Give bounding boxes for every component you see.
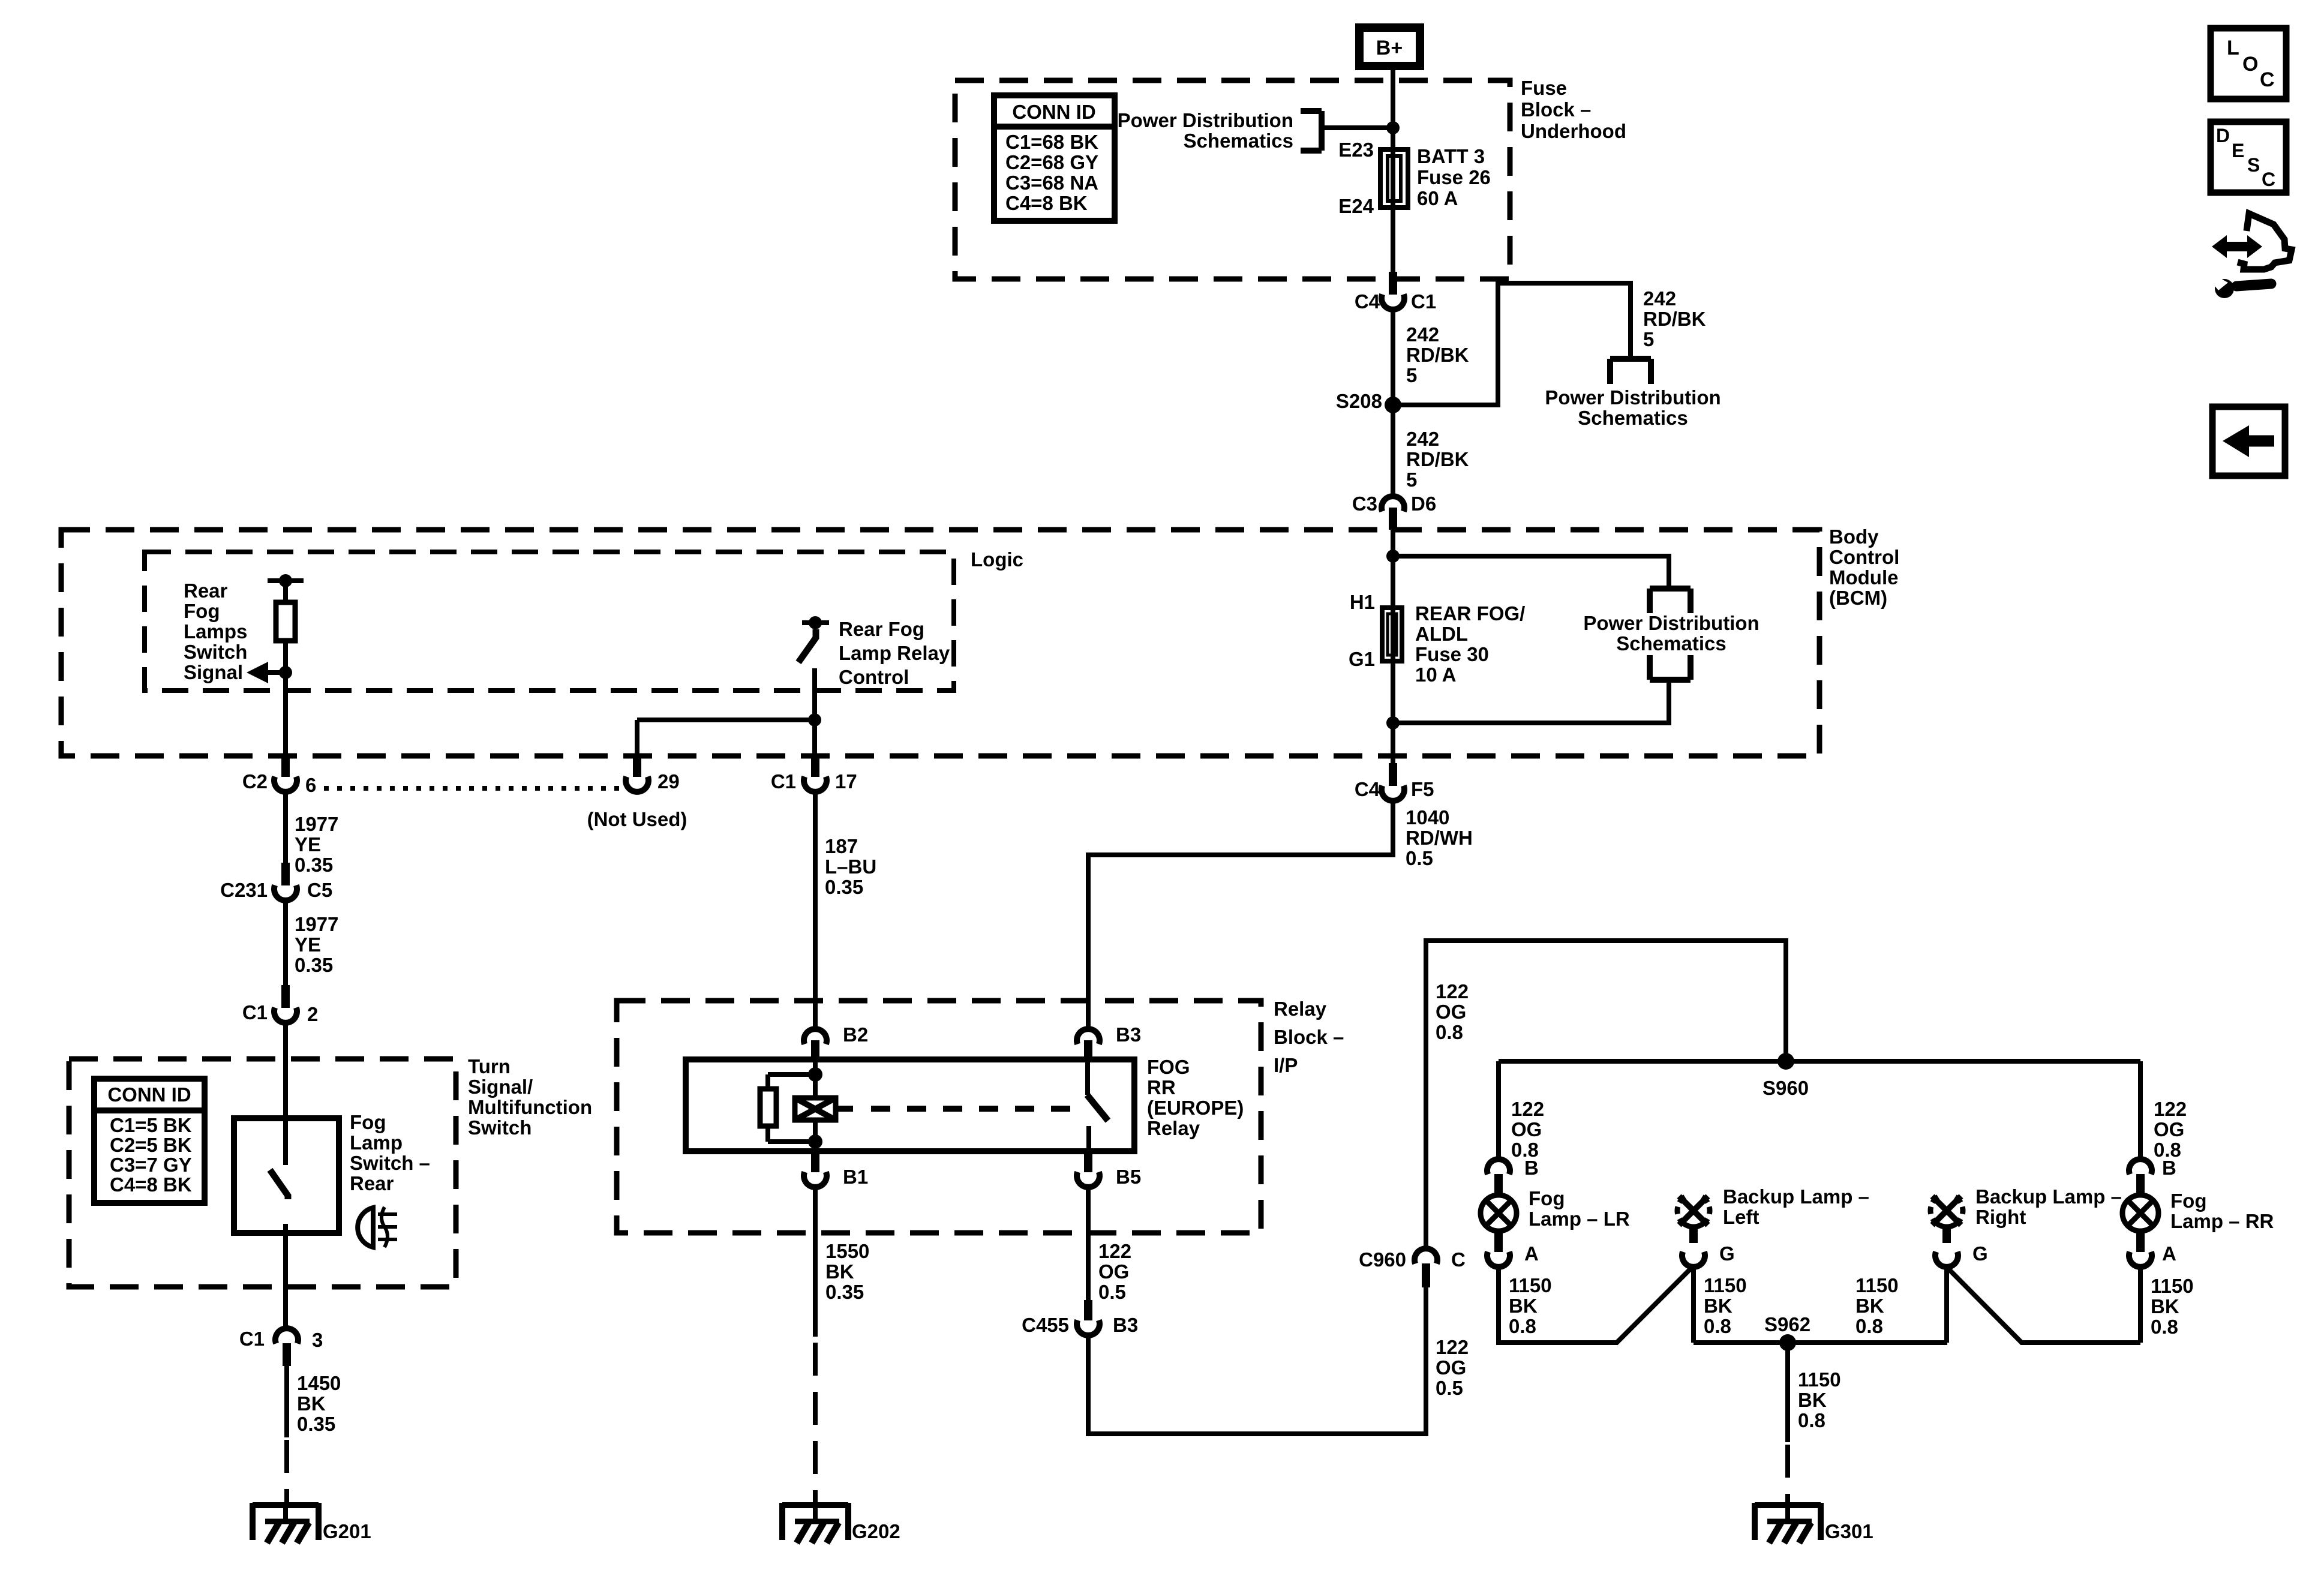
svg-text:RD/BK: RD/BK — [1406, 448, 1469, 470]
wire BCM trunk — [1391, 530, 1395, 767]
svg-text:C2=68 GY: C2=68 GY — [1005, 151, 1098, 173]
svg-text:1150: 1150 — [1798, 1368, 1841, 1391]
svg-text:S: S — [2247, 154, 2260, 176]
rear fog lamps switch signal tap — [268, 574, 304, 587]
connector C1 pin 17 — [804, 754, 827, 792]
svg-text:C455: C455 — [1022, 1314, 1069, 1336]
svg-text:REAR FOG/: REAR FOG/ — [1415, 602, 1525, 625]
svg-text:Underhood: Underhood — [1521, 120, 1626, 142]
wire label 1550 BK 0.35 — [825, 1240, 869, 1303]
svg-text:C1: C1 — [1411, 290, 1436, 313]
wire S960 to fog RR — [2138, 1061, 2143, 1159]
label Rear Fog Lamp Relay Control — [839, 618, 950, 688]
svg-text:122: 122 — [1436, 980, 1469, 1002]
wire label 242 RD/BK 5 (lower) — [1406, 428, 1469, 491]
svg-text:B: B — [1524, 1157, 1539, 1179]
fuse block - underhood dashed box — [955, 80, 1510, 279]
ground G301 — [1755, 1503, 1873, 1543]
svg-text:I/P: I/P — [1274, 1054, 1298, 1076]
svg-text:Schematics: Schematics — [1184, 130, 1293, 152]
wire label 1150 BK 0.8 (backup right) — [1855, 1274, 1899, 1337]
wire connector to S208 — [1391, 310, 1395, 405]
label Backup Lamp - Right — [1975, 1185, 2122, 1228]
svg-text:C4: C4 — [1355, 778, 1380, 800]
svg-text:187: 187 — [825, 835, 858, 857]
svg-text:Fuse 30: Fuse 30 — [1415, 643, 1489, 665]
svg-text:17: 17 — [835, 770, 857, 792]
dashed wire to G201 — [284, 1440, 289, 1503]
wire label 122 OG 0.8 (fog RR) — [2154, 1098, 2187, 1161]
svg-text:C: C — [2262, 169, 2275, 190]
wire fog LR to backup left — [1499, 1266, 1694, 1343]
svg-text:Lamps: Lamps — [184, 620, 247, 643]
connector C2 pin 6 — [274, 754, 297, 792]
wire label 1150 BK 0.8 (backup left) — [1704, 1274, 1747, 1337]
svg-text:G201: G201 — [323, 1520, 371, 1542]
svg-text:Fog: Fog — [1529, 1187, 1565, 1209]
svg-text:0.35: 0.35 — [825, 1281, 864, 1303]
svg-text:Control: Control — [839, 666, 909, 688]
connector B2 — [804, 1029, 827, 1061]
svg-text:ALDL: ALDL — [1415, 623, 1468, 645]
wire B+ down to fuse — [1391, 66, 1395, 278]
svg-text:0.8: 0.8 — [1509, 1315, 1536, 1337]
svg-text:G202: G202 — [852, 1520, 900, 1542]
wire label 1150 BK 0.8 (fog RR) — [2151, 1275, 2194, 1338]
svg-text:122: 122 — [1436, 1336, 1469, 1358]
svg-text:G: G — [1972, 1242, 1988, 1265]
svg-text:0.35: 0.35 — [295, 954, 333, 976]
svg-text:S208: S208 — [1336, 390, 1382, 412]
svg-text:C2: C2 — [242, 770, 268, 792]
wire C4/F5 to relay B3 — [1088, 803, 1393, 1028]
svg-text:242: 242 — [1406, 323, 1439, 346]
wire pin29 drop — [635, 720, 639, 760]
connector C455/B3 — [1077, 1300, 1100, 1335]
svg-text:BK: BK — [2151, 1295, 2179, 1317]
svg-text:0.35: 0.35 — [297, 1413, 335, 1435]
wire label 1150 BK 0.8 (fog LR) — [1509, 1274, 1552, 1337]
wire label 187 L-BU 0.35 — [825, 835, 876, 898]
svg-text:YE: YE — [295, 933, 321, 956]
arrow rear fog lamps switch signal — [247, 662, 286, 683]
svg-text:2: 2 — [307, 1003, 318, 1025]
svg-text:Lamp – RR: Lamp – RR — [2170, 1210, 2274, 1232]
svg-text:1977: 1977 — [295, 913, 338, 935]
wire label 1150 BK 0.8 (S962) — [1798, 1368, 1841, 1431]
svg-text:C5: C5 — [307, 879, 332, 901]
svg-text:C3: C3 — [1352, 493, 1377, 515]
svg-text:B: B — [2162, 1157, 2176, 1179]
svg-text:Signal: Signal — [184, 661, 243, 683]
svg-text:B2: B2 — [843, 1023, 868, 1046]
svg-text:Power Distribution: Power Distribution — [1545, 386, 1721, 409]
label Body Control Module (BCM) — [1829, 526, 1899, 609]
svg-text:Backup Lamp –: Backup Lamp – — [1975, 1185, 2122, 1208]
svg-text:B5: B5 — [1116, 1166, 1141, 1188]
fog lamp switch box — [234, 1118, 339, 1233]
svg-text:Power Distribution: Power Distribution — [1583, 612, 1759, 634]
svg-text:Block –: Block – — [1274, 1026, 1344, 1048]
relay coil — [795, 1098, 836, 1120]
wire BCM C4/F5 drop — [1391, 767, 1395, 769]
wire B1 to ground — [813, 1187, 818, 1337]
svg-text:Lamp – LR: Lamp – LR — [1529, 1208, 1630, 1230]
svg-text:(EUROPE): (EUROPE) — [1147, 1097, 1244, 1119]
svg-text:Relay: Relay — [1274, 998, 1327, 1020]
svg-text:C: C — [1451, 1248, 1466, 1271]
svg-text:B1: B1 — [843, 1166, 868, 1188]
svg-text:1150: 1150 — [1855, 1274, 1899, 1296]
svg-text:H1: H1 — [1350, 591, 1375, 613]
svg-text:0.35: 0.35 — [295, 854, 333, 876]
svg-text:29: 29 — [657, 770, 680, 792]
svg-text:BK: BK — [1798, 1389, 1827, 1411]
label Power Distribution Schematics (branch) — [1545, 386, 1721, 429]
svg-text:C2=5 BK: C2=5 BK — [110, 1134, 192, 1156]
splice S960 — [1777, 1053, 1794, 1070]
svg-text:YE: YE — [295, 833, 321, 855]
label Fog Lamp - RR — [2170, 1190, 2274, 1232]
label Backup Lamp - Left — [1723, 1185, 1869, 1228]
body control module dashed box — [61, 530, 1819, 756]
svg-text:Signal/: Signal/ — [468, 1076, 533, 1098]
svg-text:1150: 1150 — [1704, 1274, 1747, 1296]
wire label 1450 BK 0.35 — [297, 1372, 341, 1435]
svg-text:Module: Module — [1829, 566, 1898, 589]
svg-text:10 A: 10 A — [1415, 664, 1456, 686]
lamp Fog Lamp - RR — [2122, 1195, 2158, 1252]
svg-text:C: C — [2260, 68, 2275, 91]
junction node on B+ feed — [1386, 121, 1400, 134]
svg-text:122: 122 — [2154, 1098, 2187, 1120]
svg-text:Schematics: Schematics — [1616, 632, 1726, 655]
ground G201 — [253, 1503, 371, 1543]
svg-text:Rear: Rear — [350, 1172, 394, 1194]
LOC icon box — [2211, 28, 2286, 99]
wire switch to C1/3 — [283, 1233, 288, 1328]
wire C1/2 into switch — [283, 1024, 288, 1165]
svg-text:L–BU: L–BU — [825, 855, 876, 878]
DESC icon box — [2211, 122, 2286, 193]
junction node with arrow — [279, 666, 292, 679]
wire B5 to C455 — [1086, 1187, 1091, 1302]
svg-text:0.8: 0.8 — [1436, 1021, 1463, 1043]
svg-text:Rear Fog: Rear Fog — [839, 618, 924, 640]
wire label 122 OG 0.8 (riser) — [1436, 980, 1469, 1043]
svg-text:Control: Control — [1829, 546, 1899, 568]
wire label 242 RD/BK 5 — [1406, 323, 1469, 386]
svg-text:0.8: 0.8 — [1704, 1315, 1731, 1337]
svg-text:(BCM): (BCM) — [1829, 587, 1887, 609]
logic dashed box — [145, 552, 954, 691]
svg-text:S960: S960 — [1762, 1077, 1809, 1099]
lamp Backup Lamp - Left — [1677, 1196, 1710, 1243]
svg-text:A: A — [2162, 1242, 2176, 1265]
svg-text:0.5: 0.5 — [1436, 1377, 1463, 1399]
svg-text:F5: F5 — [1411, 778, 1434, 800]
connector C4/C1 — [1382, 272, 1404, 310]
svg-text:S962: S962 — [1764, 1313, 1810, 1335]
svg-text:Right: Right — [1975, 1206, 2026, 1228]
svg-text:C1: C1 — [771, 770, 796, 792]
wire label 122 OG 0.5 (B5) — [1098, 1240, 1131, 1303]
relay coil lower node — [813, 1120, 818, 1151]
junction node BCM top — [1386, 550, 1400, 563]
svg-text:RD/WH: RD/WH — [1406, 827, 1473, 849]
connector C4/F5 — [1382, 763, 1404, 801]
relay switch — [1087, 1059, 1108, 1151]
svg-text:0.35: 0.35 — [825, 876, 863, 898]
connector pin 29 (not used) — [626, 754, 648, 792]
label FOG RR (EUROPE) Relay — [1147, 1056, 1244, 1139]
svg-text:OG: OG — [2154, 1118, 2184, 1140]
wire S962 to ground — [1785, 1343, 1790, 1442]
label BATT 3 Fuse 26 60 A — [1417, 145, 1491, 209]
wire C1/3 to ground — [284, 1364, 289, 1437]
svg-text:OG: OG — [1511, 1118, 1542, 1140]
svg-text:Lamp Relay: Lamp Relay — [839, 642, 950, 664]
fuse REAR FOG/ALDL Fuse 30 10A — [1382, 608, 1402, 661]
fog lamp switch blade — [270, 1170, 288, 1233]
svg-text:Power Distribution: Power Distribution — [1118, 109, 1293, 131]
wire C1/17 to relay B2 — [813, 793, 818, 1028]
svg-text:Block –: Block – — [1521, 98, 1591, 121]
wire label 1040 RD/WH 0.5 — [1406, 806, 1473, 869]
svg-text:Lamp: Lamp — [350, 1131, 403, 1154]
svg-text:Schematics: Schematics — [1578, 407, 1688, 429]
svg-text:1150: 1150 — [2151, 1275, 2194, 1297]
svg-text:Left: Left — [1723, 1206, 1759, 1228]
splice S208 — [1385, 397, 1401, 413]
svg-text:Fuse: Fuse — [1521, 77, 1567, 99]
junction node BCM bottom — [1386, 716, 1400, 730]
wire label 1977 YE 0.35 (upper) — [295, 813, 338, 876]
svg-text:Fog: Fog — [184, 600, 220, 622]
svg-text:1977: 1977 — [295, 813, 338, 835]
svg-text:RD/BK: RD/BK — [1643, 308, 1706, 330]
svg-text:BATT 3: BATT 3 — [1417, 145, 1485, 167]
svg-text:C231: C231 — [220, 879, 268, 901]
label Turn Signal/ Multifunction Switch — [468, 1055, 592, 1139]
svg-text:D: D — [2216, 125, 2230, 146]
wire label 1977 YE 0.35 (lower) — [295, 913, 338, 976]
wire label 122 OG 0.8 (fog LR) — [1511, 1098, 1544, 1161]
svg-text:L: L — [2227, 37, 2239, 59]
wire S208 branch to power distribution — [1393, 283, 1631, 405]
svg-text:Switch: Switch — [468, 1116, 532, 1139]
svg-text:Logic: Logic — [971, 548, 1023, 571]
connector C3/D6 — [1382, 496, 1404, 530]
label Fuse Block - Underhood — [1521, 77, 1626, 142]
svg-text:5: 5 — [1406, 469, 1417, 491]
svg-text:C4=8 BK: C4=8 BK — [1005, 192, 1088, 214]
svg-text:CONN ID: CONN ID — [107, 1083, 191, 1106]
svg-text:Relay: Relay — [1147, 1117, 1200, 1139]
svg-text:242: 242 — [1643, 287, 1676, 310]
rear fog lamp relay control switch — [798, 616, 829, 769]
svg-text:O: O — [2242, 53, 2258, 76]
junction node relay control branch — [808, 713, 821, 727]
wire backup left to S962 — [1691, 1267, 1696, 1343]
svg-text:BK: BK — [825, 1260, 854, 1283]
resistor (switch signal) — [276, 581, 295, 673]
svg-text:60 A: 60 A — [1417, 187, 1458, 209]
bracket to power distribution — [1301, 111, 1322, 151]
svg-text:1150: 1150 — [1509, 1274, 1552, 1296]
connector G (backup right) — [1935, 1252, 1958, 1267]
svg-text:0.8: 0.8 — [2151, 1316, 2178, 1338]
label Relay Block - I/P — [1274, 998, 1344, 1076]
label Rear Fog Lamps Switch Signal — [184, 580, 247, 683]
off-page pointer (power distribution) — [1610, 359, 1651, 384]
label Power Distribution Schematics (BCM) — [1583, 612, 1759, 655]
internal pointer bottom bracket — [1650, 655, 1691, 680]
svg-text:CONN ID: CONN ID — [1012, 101, 1095, 123]
CONN ID table (multifunction switch) — [94, 1079, 205, 1203]
svg-text:Switch –: Switch – — [350, 1152, 430, 1174]
connector B5 — [1077, 1151, 1100, 1187]
svg-text:1550: 1550 — [825, 1240, 869, 1262]
relay FOG RR (EUROPE) box — [686, 1059, 1134, 1151]
svg-text:C1: C1 — [239, 1328, 265, 1350]
svg-text:RD/BK: RD/BK — [1406, 344, 1469, 366]
svg-text:0.8: 0.8 — [1798, 1409, 1825, 1431]
svg-text:242: 242 — [1406, 428, 1439, 450]
svg-text:122: 122 — [1511, 1098, 1544, 1120]
svg-text:OG: OG — [1436, 1001, 1466, 1023]
svg-text:B3: B3 — [1113, 1314, 1138, 1336]
svg-text:Switch: Switch — [184, 641, 247, 663]
svg-text:Multifunction: Multifunction — [468, 1096, 592, 1118]
wire fog RR down to return — [2138, 1267, 2143, 1343]
svg-text:E: E — [2232, 140, 2244, 161]
svg-text:OG: OG — [1098, 1260, 1129, 1283]
internal pointer top bracket — [1650, 589, 1691, 613]
svg-text:(Not Used): (Not Used) — [587, 808, 687, 830]
wire backup right to fog RR return — [1947, 1267, 2140, 1343]
svg-text:1450: 1450 — [297, 1372, 341, 1394]
svg-text:RR: RR — [1147, 1076, 1176, 1098]
svg-text:C1=5 BK: C1=5 BK — [110, 1114, 192, 1136]
wire to internal power distribution — [1393, 556, 1669, 589]
connector C231/C5 — [274, 863, 297, 900]
connector C960/C — [1415, 1248, 1437, 1287]
svg-text:C4: C4 — [1355, 290, 1380, 313]
svg-text:E24: E24 — [1338, 195, 1374, 217]
connector B3 (relay top) — [1077, 1029, 1100, 1061]
svg-text:0.8: 0.8 — [1855, 1315, 1883, 1337]
wire branch to pin 29 — [637, 718, 815, 722]
svg-text:C1: C1 — [242, 1001, 268, 1023]
splice S962 — [1779, 1334, 1796, 1351]
svg-text:Body: Body — [1829, 526, 1879, 548]
wire bracket to B+ feed — [1322, 125, 1393, 130]
svg-text:G: G — [1719, 1242, 1735, 1265]
svg-text:BK: BK — [1509, 1295, 1538, 1317]
connector C1 pin 2 — [274, 985, 297, 1023]
wire label 242 RD/BK 5 (branch) — [1643, 287, 1706, 350]
svg-text:3: 3 — [312, 1329, 323, 1351]
svg-text:G301: G301 — [1825, 1520, 1873, 1542]
connector A (fog LR) — [1487, 1252, 1510, 1267]
svg-text:6: 6 — [305, 774, 316, 796]
connector A (fog RR) — [2129, 1252, 2152, 1267]
connector G (backup left) — [1682, 1252, 1705, 1267]
label Fog Lamp - LR — [1529, 1187, 1630, 1230]
relay block I/P dashed box — [617, 1001, 1261, 1233]
svg-text:C960: C960 — [1359, 1248, 1406, 1271]
svg-text:122: 122 — [1098, 1240, 1131, 1262]
turn signal/multifunction switch dashed box — [69, 1059, 456, 1287]
wire backup right to S962 — [1944, 1267, 1949, 1343]
svg-text:B3: B3 — [1116, 1023, 1141, 1046]
svg-text:OG: OG — [1436, 1356, 1466, 1379]
svg-text:G1: G1 — [1349, 648, 1375, 670]
wire S960 bus — [1499, 1059, 2140, 1064]
svg-text:BK: BK — [1855, 1295, 1884, 1317]
label Power Distribution Schematics (fuse block) — [1118, 109, 1293, 152]
lamp Backup Lamp - Right — [1930, 1196, 1963, 1243]
svg-text:FOG: FOG — [1147, 1056, 1190, 1078]
fog lamp switch icon — [358, 1207, 397, 1247]
dotted link C2 to 29 — [324, 786, 623, 791]
svg-text:BK: BK — [1704, 1295, 1733, 1317]
svg-text:Fog: Fog — [350, 1111, 386, 1133]
connector C1 pin 3 — [275, 1328, 298, 1366]
connector B1 — [804, 1151, 827, 1187]
wire C231 to C1/2 — [283, 902, 288, 991]
svg-text:1040: 1040 — [1406, 806, 1449, 828]
svg-text:BK: BK — [297, 1392, 326, 1415]
wire switch signal down to C2 — [283, 673, 288, 769]
wire C960 riser to S960 feed — [1426, 941, 1786, 1248]
connector B (fog RR) — [2129, 1159, 2152, 1197]
svg-text:D6: D6 — [1411, 493, 1436, 515]
CONN ID table (fuse block) — [994, 95, 1115, 221]
svg-text:C3=68 NA: C3=68 NA — [1005, 172, 1098, 194]
svg-text:Backup Lamp –: Backup Lamp – — [1723, 1185, 1869, 1208]
svg-text:5: 5 — [1406, 364, 1417, 386]
relay coil branch — [768, 1059, 822, 1098]
wire S208 to C3 — [1391, 405, 1395, 496]
dashed wire to G301 — [1785, 1445, 1790, 1503]
svg-text:B+: B+ — [1376, 37, 1403, 59]
back arrow icon box — [2212, 407, 2285, 476]
relay resistor — [760, 1089, 776, 1126]
svg-text:0.5: 0.5 — [1406, 847, 1433, 869]
svg-text:C1=68 BK: C1=68 BK — [1005, 131, 1098, 153]
power symbol B+ — [1359, 28, 1420, 66]
lamp Fog Lamp - LR — [1481, 1195, 1517, 1252]
svg-text:Fuse 26: Fuse 26 — [1417, 166, 1491, 188]
wire label 122 OG 0.5 (bottom) — [1436, 1336, 1469, 1399]
wire S960 to fog LR — [1496, 1061, 1501, 1159]
wire C2 to C231 — [283, 793, 288, 866]
wire S962 bus — [1694, 1340, 1947, 1345]
schematic navigation icon (arrow / wrench) — [2212, 214, 2292, 298]
svg-text:E23: E23 — [1338, 139, 1374, 161]
dashed wire to G202 — [813, 1343, 818, 1503]
connector B (fog LR) — [1487, 1159, 1510, 1197]
label REAR FOG/ ALDL Fuse 30 10 A — [1415, 602, 1525, 686]
ground G202 — [782, 1503, 900, 1543]
svg-text:C4=8 BK: C4=8 BK — [110, 1173, 192, 1196]
svg-text:A: A — [1524, 1242, 1539, 1265]
label Fog Lamp Switch - Rear — [350, 1111, 430, 1194]
svg-text:5: 5 — [1643, 328, 1654, 350]
fuse BATT 3 Fuse 26 60A — [1380, 149, 1408, 208]
